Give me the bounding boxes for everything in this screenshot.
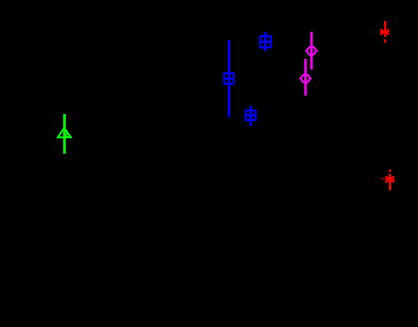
magenta x-error nubs 1 <box>305 50 307 52</box>
magenta circle marker 2 <box>301 74 309 82</box>
blue x-error bar 1 <box>224 78 234 80</box>
blue square marker 1 <box>224 73 234 84</box>
blue square marker 2 <box>260 36 271 47</box>
blue error bar 3 <box>249 106 251 126</box>
green triangle marker (small) <box>64 133 70 137</box>
red error bar 1 upper <box>384 21 386 37</box>
blue error bar 2 <box>264 32 266 51</box>
green triangle marker (large) <box>58 128 71 138</box>
green error bar <box>63 114 66 154</box>
blue square marker 3 <box>246 110 256 120</box>
red asterisk marker 2 <box>385 177 394 183</box>
magenta error bar 2 <box>304 59 306 96</box>
red error bar 1 lower segment <box>384 39 386 42</box>
blue x-error bar 3 <box>246 114 256 116</box>
red asterisk 2 faint left arm <box>381 178 385 180</box>
red asterisk marker 1 <box>380 29 389 35</box>
blue error bar 1 <box>228 40 230 117</box>
red error bar 2 top dot <box>389 170 391 172</box>
magenta x-error nubs 2 <box>299 78 301 80</box>
blue x-error bar 2 <box>260 41 271 43</box>
red error bar 2 <box>389 174 391 191</box>
magenta error bar 1 <box>310 32 312 70</box>
magenta circle marker 1 <box>307 47 315 55</box>
